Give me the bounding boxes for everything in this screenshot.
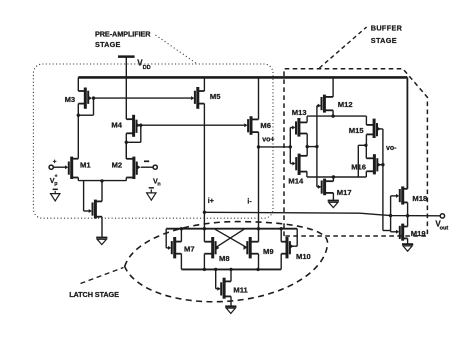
svg-text:STAGE: STAGE xyxy=(371,36,397,45)
svg-text:M6: M6 xyxy=(260,121,271,130)
svg-text:M14: M14 xyxy=(288,176,304,185)
svg-text:LATCH STAGE: LATCH STAGE xyxy=(69,290,119,299)
svg-text:M12: M12 xyxy=(338,100,353,109)
svg-text:M15: M15 xyxy=(349,126,365,135)
svg-text:n: n xyxy=(157,182,160,188)
svg-text:vo+: vo+ xyxy=(262,137,274,144)
svg-text:+: + xyxy=(53,159,57,166)
svg-text:M18: M18 xyxy=(412,194,427,203)
svg-text:M9: M9 xyxy=(263,247,274,256)
svg-text:vo-: vo- xyxy=(386,145,397,152)
svg-text:M5: M5 xyxy=(210,92,221,101)
svg-text:M2: M2 xyxy=(112,161,123,170)
svg-text:M17: M17 xyxy=(337,188,352,197)
svg-text:+: + xyxy=(55,173,58,179)
svg-text:M4: M4 xyxy=(111,121,122,130)
svg-text:out: out xyxy=(440,226,449,232)
svg-text:M7: M7 xyxy=(184,244,195,253)
svg-text:STAGE: STAGE xyxy=(95,40,121,49)
svg-text:M13: M13 xyxy=(292,108,307,117)
svg-text:M3: M3 xyxy=(65,95,76,104)
svg-text:M8: M8 xyxy=(219,254,230,263)
svg-text:M19: M19 xyxy=(411,229,426,238)
svg-text:i-: i- xyxy=(247,198,252,205)
svg-text:M16: M16 xyxy=(351,162,366,171)
svg-text:M10: M10 xyxy=(296,252,311,261)
svg-text:DD: DD xyxy=(143,65,151,71)
svg-text:M11: M11 xyxy=(233,285,248,294)
svg-text:M1: M1 xyxy=(80,161,91,170)
svg-text:BUFFER: BUFFER xyxy=(371,23,403,32)
svg-text:PRE-AMPLIFIER: PRE-AMPLIFIER xyxy=(95,29,151,38)
svg-text:i+: i+ xyxy=(208,198,214,205)
